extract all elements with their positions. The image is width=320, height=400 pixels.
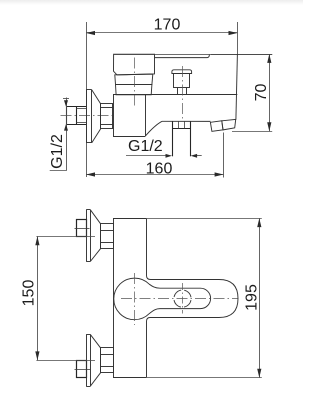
cartridge vertical centerline (134, 273, 136, 325)
G1/2 leader line with arrows (126, 155, 202, 157)
lever bar (155, 55, 210, 58)
svg-text:150: 150 (21, 280, 38, 307)
union hex nut (101, 104, 113, 129)
svg-text:G1/2: G1/2 (49, 134, 66, 169)
wall face / extension line (86, 22, 88, 177)
shower pipe hex facets (179, 121, 185, 128)
bottom inlet hex nut (101, 348, 114, 373)
dimension 150 arrows (35, 236, 39, 360)
top inlet hex nut (101, 224, 114, 249)
cartridge housing circle + lever slot (keyhole outline) (114, 278, 211, 320)
dimension 160 line (86, 133, 223, 178)
pipe centerline (61, 115, 113, 117)
pipe thread lines (76, 109, 86, 123)
dimension 170 arrows (86, 31, 237, 35)
faucet body (113, 54, 237, 137)
cartridge collar band 2 (116, 85, 152, 95)
shower outlet pipe (172, 121, 191, 156)
top inlet thread centerline (75, 228, 90, 230)
bottom inlet thread centerline (75, 369, 91, 371)
svg-text:160: 160 (146, 161, 173, 178)
spout outlet (210, 119, 235, 131)
bottom inlet: wall thread square (77, 361, 87, 378)
svg-text:195: 195 (244, 284, 261, 311)
top line continuing to 70-dim extension (114, 54, 273, 56)
dimension 195 arrows (257, 218, 261, 377)
dimension 170 line (86, 22, 237, 54)
diverter hidden circle (174, 290, 191, 307)
G1/2 label underline (50, 170, 67, 172)
svg-text:70: 70 (253, 84, 270, 102)
svg-text:G1/2: G1/2 (128, 138, 163, 155)
dimension 160 arrows (86, 172, 223, 176)
pipe diameter leader line (63, 98, 69, 171)
cartridge centerline (134, 58, 136, 107)
diverter vertical centerline (182, 283, 184, 314)
dimension 70 line (211, 54, 272, 132)
top edge shading (0, 0, 303, 5)
handle tongue (outer) (147, 276, 239, 322)
body bar (113, 218, 147, 377)
diverter knob (172, 70, 192, 95)
dimension 150 (36, 236, 95, 360)
bottom inlet escutcheon (86, 334, 100, 386)
top inlet escutcheon (86, 210, 100, 262)
dimension 195 (146, 218, 262, 377)
top inlet: wall thread square (77, 220, 87, 237)
diverter centerline (182, 66, 184, 119)
dimension 70 arrows (267, 54, 271, 131)
pipe diameter arrows (64, 100, 68, 130)
cartridge collar band 1 (115, 74, 153, 84)
wall inlet pipe (67, 107, 87, 125)
escutcheon flange (86, 90, 101, 143)
svg-text:170: 170 (154, 17, 181, 34)
handle lever cap (114, 54, 155, 75)
main horizontal centerline (121, 298, 238, 300)
